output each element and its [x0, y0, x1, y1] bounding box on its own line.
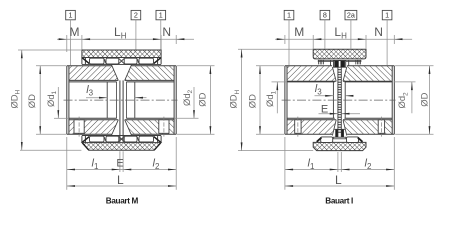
top dimension line M LH N	[57, 38, 194, 40]
sleeve bevel bottom-left	[82, 137, 89, 143]
ext line shank left fig2	[337, 152, 339, 172]
web slant top-left	[332, 67, 336, 81]
bore bottom lines	[69, 117, 117, 119]
set screw hole centerline right	[380, 117, 382, 137]
arrow N right fig2	[394, 38, 402, 40]
svg-text:M: M	[294, 25, 304, 39]
svg-text:Bauart I: Bauart I	[325, 196, 353, 205]
flange section bottom-right (hatch \)	[343, 120, 392, 135]
center axis	[64, 99, 178, 101]
label diameter D right fig2	[418, 92, 429, 106]
label diameter D left	[26, 94, 37, 108]
arrow D right top fig2	[429, 66, 431, 74]
bore end line left	[332, 82, 334, 118]
arrow D left bottom	[39, 126, 41, 134]
web slant bottom-left	[111, 120, 118, 136]
label diameter D right	[197, 92, 208, 106]
arrow M left	[59, 38, 67, 40]
bore bottom lines	[287, 117, 335, 119]
sleeve tooth top 3	[124, 58, 137, 64]
washer	[333, 137, 346, 139]
bore end line left	[106, 82, 108, 118]
dim line d1	[57, 87, 59, 118]
sleeve bevel top-left	[82, 58, 89, 64]
ext line D top-left	[36, 65, 66, 67]
arrow DH bottom	[21, 142, 23, 150]
dim line l3 left fig2	[315, 95, 334, 97]
claw edge left	[330, 60, 332, 66]
dim line D left	[39, 66, 41, 135]
arrow l2 left	[123, 169, 131, 171]
arrow d1 top fig2	[276, 82, 278, 90]
ext line hub left bottom	[66, 137, 68, 190]
ext line sleeve left	[81, 35, 83, 50]
arrow d1 bottom	[57, 110, 59, 118]
claw edge right	[348, 60, 350, 66]
tooth gap cross bottom	[119, 136, 124, 141]
dim line D left fig2	[259, 66, 261, 135]
svg-text:E: E	[321, 103, 328, 115]
set screw hole centerline left	[297, 117, 299, 137]
ext line hub right bottom fig2	[393, 137, 395, 190]
chamfer line right	[125, 82, 127, 118]
svg-text:2a: 2a	[347, 11, 355, 20]
label diameter DH	[8, 89, 21, 108]
flange section bottom-right (hatch \)	[125, 120, 174, 135]
dim line L	[67, 185, 176, 187]
callout box 8	[320, 10, 330, 19]
hub OD line bottom	[67, 133, 112, 135]
ext line D bottom-right fig2	[395, 133, 433, 135]
leader from box 1 right fig2	[386, 20, 388, 66]
ext line sleeve right fig2	[365, 35, 367, 49]
ext line d1 fig2	[272, 81, 288, 83]
tooth gap cross top	[119, 58, 124, 63]
svg-text:8: 8	[323, 11, 327, 20]
svg-text:N: N	[374, 25, 383, 39]
svg-text:N: N	[162, 25, 171, 39]
sleeve band top (rounded, cross-hatched)	[313, 49, 366, 59]
arrow LH left	[82, 38, 90, 40]
center axis	[282, 99, 396, 101]
screw shank	[337, 67, 339, 137]
leader from box 2a	[350, 20, 352, 49]
arrow l1 right	[112, 169, 120, 171]
arrow d2 bottom	[193, 110, 195, 118]
sleeve outer band top (elastomer, cross-hatched)	[82, 50, 161, 58]
arrow l2 right	[168, 169, 176, 171]
dim line L fig2	[285, 185, 394, 187]
web slant bottom-right	[125, 120, 132, 136]
ext line hub right bottom	[175, 137, 177, 190]
sleeve tooth top 4	[139, 58, 154, 64]
arrow l3 left fig2	[325, 95, 333, 97]
svg-text:ØD: ØD	[26, 94, 37, 108]
screw head section right	[341, 61, 345, 67]
flange section top-right (hatch \)	[125, 66, 174, 81]
tooth gap marks bottom	[104, 136, 139, 141]
arrow E left fig2	[330, 113, 338, 115]
svg-text:E: E	[116, 157, 123, 169]
dim line DH fig2	[241, 49, 243, 150]
hub OD line top	[285, 65, 332, 67]
dim line d2 fig2	[411, 82, 413, 113]
bore top lines	[287, 80, 336, 82]
sleeve lip wall bottom-left	[81, 136, 83, 143]
callout box 2	[131, 10, 141, 19]
arrow D right bottom	[210, 126, 212, 134]
nut section right	[342, 129, 344, 137]
label diameter DH fig2	[228, 89, 241, 108]
bore end line right	[134, 82, 136, 118]
arrow d2 top fig2	[411, 82, 413, 90]
sleeve outer band bottom (elastomer, cross-hatched)	[82, 143, 161, 151]
hub left outer edge	[284, 66, 286, 135]
retaining ring left	[318, 60, 320, 65]
arrow l3 left	[99, 97, 107, 99]
dim line l3 right part	[135, 97, 147, 99]
screw head section left	[334, 61, 338, 67]
svg-text:1: 1	[287, 11, 291, 20]
sleeve tooth bottom 4	[139, 136, 154, 142]
arrow DH top fig2	[241, 49, 243, 57]
sleeve bevel bottom-right	[154, 137, 161, 143]
dim line l1 l2 fig2	[285, 169, 394, 171]
dim line E right fig2	[341, 113, 360, 115]
leader from box 2	[135, 20, 137, 50]
arrow D right bottom fig2	[429, 126, 431, 134]
arrow E right fig2	[341, 113, 349, 115]
svg-text:L: L	[335, 173, 342, 187]
arrow L right fig2	[386, 185, 394, 187]
top dimension line M LH N fig2	[275, 38, 412, 40]
ext line D bottom-left fig2	[256, 133, 284, 135]
dim line l1 l2	[67, 169, 176, 171]
callout box 1 right fig2	[382, 10, 392, 19]
svg-text:ØD: ØD	[246, 94, 257, 108]
label diameter d1	[45, 90, 58, 107]
ext line d2	[174, 117, 198, 119]
leader from box 1 left	[70, 20, 72, 66]
teeth root line top	[82, 64, 161, 66]
ext line hub left bottom fig2	[284, 137, 286, 190]
dim line d1 fig2	[276, 82, 278, 113]
arrow LH left fig2	[313, 38, 321, 40]
dim line l3 left part	[86, 97, 107, 99]
arrow M left fig2	[277, 38, 285, 40]
flange section bottom-left (hatch /)	[69, 120, 118, 135]
svg-text:L: L	[117, 173, 124, 187]
arrow L left	[67, 185, 75, 187]
svg-text:1: 1	[385, 11, 389, 20]
flange section top-right (hatch \)	[343, 66, 392, 82]
hub right outer edge	[393, 66, 395, 135]
hub left outer edge	[66, 66, 68, 135]
label diameter D left fig2	[246, 94, 257, 108]
sleeve tooth bottom 3	[124, 136, 137, 142]
ext line D bottom-left	[36, 133, 66, 135]
sleeve band bottom (chamfered, cross-hatched)	[313, 142, 366, 150]
arrow DH bottom fig2	[241, 142, 243, 150]
arrow N right	[176, 38, 184, 40]
flange section top-left (hatch /)	[69, 66, 118, 81]
label diameter d1 fig2	[264, 90, 277, 107]
ext line hub right fig2	[393, 35, 395, 44]
bore top lines	[69, 79, 118, 81]
svg-text:ØD: ØD	[418, 92, 429, 106]
bore end line right	[344, 82, 346, 118]
hub OD line bottom	[285, 133, 332, 135]
flange section bottom-left (hatch /)	[287, 120, 336, 135]
callout box 1 right	[156, 10, 166, 19]
dim line l3 right fig2	[345, 95, 353, 97]
arrow DH top	[21, 50, 23, 58]
hub right outer edge	[175, 66, 177, 135]
arrow D right top	[210, 66, 212, 74]
ext line DH bottom fig2	[238, 150, 313, 152]
arrow L right	[168, 185, 176, 187]
web slant bottom-right	[343, 120, 347, 136]
ext line sleeve right	[160, 35, 162, 50]
ext line hub left fig2	[284, 35, 286, 44]
arrow D left top fig2	[259, 66, 261, 74]
chamfer line left	[116, 82, 118, 118]
ext line hub left	[66, 35, 68, 52]
nut top line	[334, 128, 345, 130]
callout box 1 left	[66, 10, 76, 19]
ext line DH top fig2	[238, 48, 313, 50]
claw wing bottom-right	[358, 138, 363, 142]
set screw hole left hub	[74, 120, 84, 134]
ext line sleeve left fig2	[312, 35, 314, 49]
ext line d1	[54, 117, 69, 119]
set screw hole left hub	[295, 120, 301, 134]
svg-text:Bauart M: Bauart M	[106, 196, 139, 205]
arrow L left fig2	[285, 185, 293, 187]
ext line DH top	[18, 49, 82, 51]
ext line D top-right	[177, 65, 215, 67]
sleeve lip wall top-left	[81, 58, 83, 65]
svg-text:ØD: ØD	[197, 92, 208, 106]
svg-text:M: M	[70, 25, 80, 39]
set screw hole right hub	[159, 120, 169, 134]
svg-text:1: 1	[159, 11, 163, 20]
svg-text:1: 1	[69, 11, 73, 20]
retaining ring right	[355, 60, 357, 65]
web slant top-right	[125, 65, 132, 81]
tooth gap marks top	[104, 58, 139, 63]
sleeve lip wall bottom-right	[160, 136, 162, 143]
nut section left	[335, 129, 337, 137]
ext line d2 fig2	[394, 81, 416, 83]
callout box 2a	[345, 10, 357, 19]
arrow l3 right fig2	[345, 95, 353, 97]
label diameter d2	[181, 89, 194, 106]
dim line D right	[209, 66, 211, 135]
set screw hole centerline right	[163, 117, 165, 137]
leader from box 1 left fig2	[288, 20, 290, 66]
ext line DH bottom	[20, 149, 81, 151]
claw tooth bottom-left	[321, 137, 333, 143]
screw thread ticks	[338, 69, 341, 71]
ext line E left	[119, 151, 121, 172]
dim line DH	[21, 50, 23, 150]
arrow l2 left fig2	[341, 169, 349, 171]
claw wing bottom-left	[317, 138, 322, 142]
arrow D left top	[39, 66, 41, 74]
svg-text:2: 2	[134, 11, 138, 20]
ext line E right	[122, 151, 124, 172]
sleeve bevel top-right	[154, 58, 161, 64]
set screw hole centerline left	[78, 117, 80, 137]
hub face right (gap E)	[122, 80, 124, 141]
ext line hub right	[175, 35, 177, 44]
sleeve tooth bottom 1	[90, 136, 105, 142]
dim line D right fig2	[429, 66, 431, 135]
set screw hole right hub	[378, 120, 384, 134]
hub face left (gap E)	[119, 80, 121, 141]
sleeve lip wall top-right	[160, 58, 162, 65]
arrow LH right	[153, 38, 161, 40]
sleeve tooth top 2	[106, 58, 119, 64]
screw head outline	[334, 61, 346, 68]
ext line D bottom-right	[177, 133, 215, 135]
leader from box 8	[324, 20, 326, 49]
sleeve tooth top 1	[90, 58, 105, 64]
arrow l2 right fig2	[386, 169, 394, 171]
arrow l1 right fig2	[330, 169, 338, 171]
label diameter d2 fig2	[396, 92, 409, 109]
web slant top-left	[111, 65, 118, 81]
flange section top-left (hatch /)	[287, 66, 336, 82]
leader from box 1 right	[160, 20, 162, 50]
callout box 1 left fig2	[284, 10, 294, 19]
ext line shank right fig2	[340, 152, 342, 172]
arrow D left bottom fig2	[259, 126, 261, 134]
arrow LH right fig2	[358, 38, 366, 40]
dim line E left fig2	[319, 113, 338, 115]
sleeve tooth bottom 2	[106, 136, 119, 142]
ext line D top-right fig2	[395, 65, 433, 67]
ext line D top-left fig2	[256, 65, 284, 67]
dim line d2	[193, 87, 195, 118]
claw tooth bottom-right	[347, 137, 359, 143]
arrow l3 right	[135, 97, 143, 99]
sleeve lip line	[318, 59, 362, 61]
arrow l1 left	[67, 169, 75, 171]
arrow l1 left fig2	[285, 169, 293, 171]
teeth root line bottom	[82, 135, 161, 137]
hub OD line top	[67, 65, 112, 67]
web slant top-right	[343, 67, 347, 81]
web slant bottom-left	[332, 120, 336, 136]
